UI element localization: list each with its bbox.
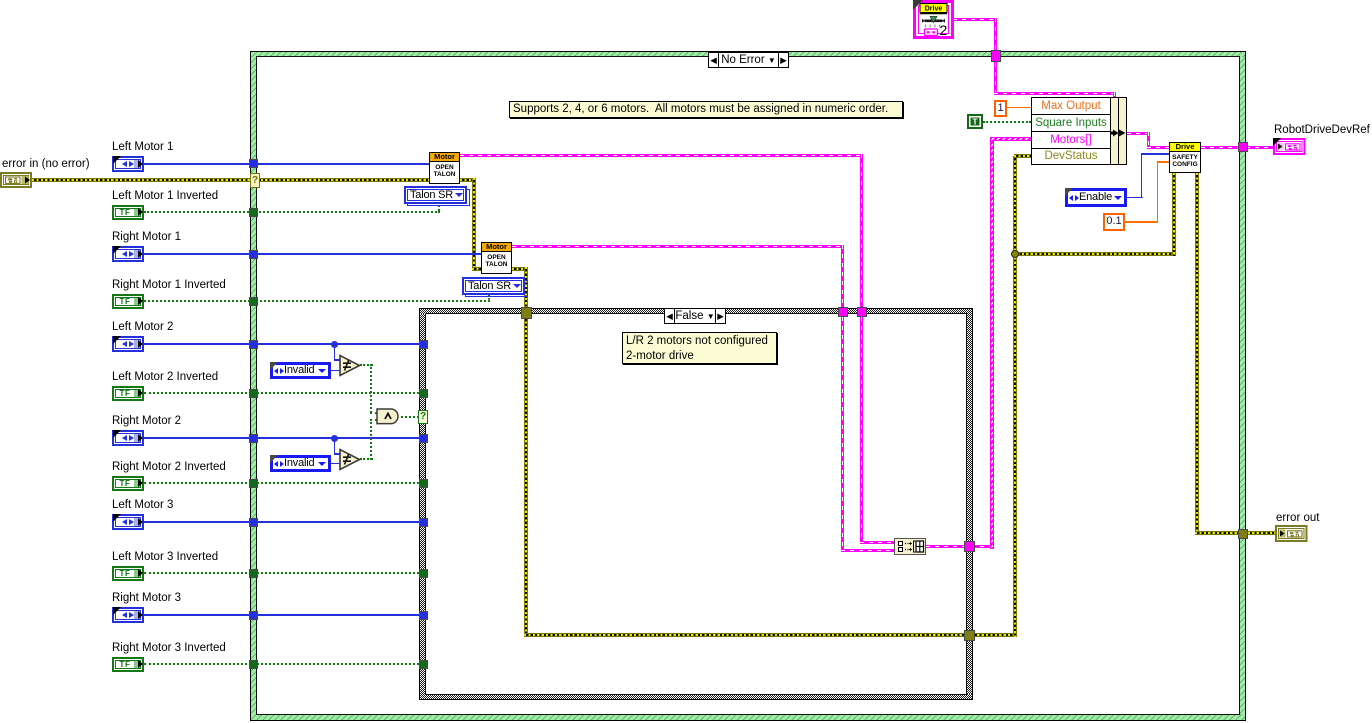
tunnel: Left Motor 2 Inverted on outer border — [249, 389, 258, 398]
node: build array — [894, 538, 926, 555]
label: Left Motor 1 — [112, 141, 173, 154]
comment: L/R 2 motors not configured — [622, 332, 777, 364]
wire: pink from Drive refnum constant into case — [953, 18, 997, 21]
refnum constant: Drive motor typedef — [913, 0, 954, 39]
label: Left Motor 2 — [112, 321, 173, 334]
tunnel: pink OPEN TALON 1 on inner top border — [857, 307, 867, 317]
wire: Left Motor 1 Inverted green dotted — [144, 211, 440, 213]
enum constant: Talon SR 1 — [407, 189, 470, 206]
tunnel: pink build array output on inner right border — [964, 541, 975, 552]
wire: pink inside inner case left to build array — [841, 317, 844, 552]
wire: Right Motor 2 blue — [144, 437, 419, 439]
label: Right Motor 1 Inverted — [112, 279, 226, 292]
label: Left Motor 3 Inverted — [112, 551, 218, 564]
tunnel: Left Motor 2 on inner border — [419, 340, 428, 349]
tunnel: error out on outer right border — [1238, 529, 1248, 539]
wire: green T constant to bundle Square Inputs — [983, 121, 1031, 123]
enum constant: Talon SR 2 — [465, 280, 528, 297]
wire: Left Motor 2 blue — [144, 343, 419, 345]
wire: pink bundle output to Drive Safety Config — [1127, 132, 1150, 135]
enum constant: Invalid 1 — [270, 362, 331, 379]
wire: pink from OPEN TALON 1 to inner case tunnel — [460, 154, 863, 157]
wire: Right Motor 3 Inverted green dotted — [144, 663, 419, 665]
comparison node: not-equal 1 — [339, 354, 362, 377]
tunnel: pink Drive refnum on outer top border — [991, 50, 1001, 62]
node: case selector label "No Error" — [708, 52, 789, 68]
control terminal: Left Motor 2 Inverted — [112, 386, 144, 401]
wire: blue Enable to Drive Safety Config — [1127, 197, 1143, 199]
constant: 1 — [994, 100, 1007, 117]
control terminal: Right Motor 1 — [112, 246, 144, 262]
control terminal: Left Motor 2 — [112, 336, 144, 352]
wire: error between OPEN TALON 1 and 2 — [460, 178, 476, 182]
wire: pink from OPEN TALON 2 to inner case tunnel — [512, 245, 844, 248]
wire: pink inside inner case right to build array — [860, 317, 863, 544]
tunnel: error into inner case top border — [521, 307, 532, 319]
svg-text:2: 2 — [940, 22, 948, 38]
case structure: inner False case border — [419, 308, 973, 700]
wire: error from Drive Safety Config down to error out — [1195, 173, 1199, 535]
tunnel: Left Motor 2 on outer border — [249, 340, 258, 349]
wire: Left Motor 3 Inverted green dotted — [144, 572, 419, 574]
wire: And output to inner case selector — [401, 416, 419, 418]
svg-text:T: T — [972, 117, 978, 127]
wire: error vertical inside inner case — [524, 317, 528, 637]
tunnel: error out of inner case right border — [964, 630, 975, 641]
constant: 0.1 — [1103, 213, 1125, 231]
enum constant: Invalid 2 — [270, 455, 331, 472]
wire: magenta array wire up to bundle Motors[] — [990, 137, 994, 549]
label: Right Motor 3 — [112, 592, 181, 605]
wire: Invalid 2 output to not-equal 2 — [331, 463, 340, 465]
node: bundle by name — [1031, 97, 1127, 165]
wire: orange 0.1 to Drive Safety Config — [1125, 221, 1158, 223]
tunnel: pink OPEN TALON 2 on inner top border — [838, 307, 848, 317]
node: outer case selector ? — [250, 173, 260, 188]
label: Right Motor 2 — [112, 415, 181, 428]
label: RobotDriveDevRef — [1274, 124, 1370, 137]
tunnel: Left Motor 3 on inner border — [419, 518, 428, 527]
label: Right Motor 2 Inverted — [112, 461, 226, 474]
constant: T boolean true — [967, 114, 983, 129]
wire: not-equal 2 output to And — [360, 458, 373, 460]
svg-text:Drive: Drive — [925, 5, 943, 12]
tunnel: Right Motor 3 on inner border — [419, 611, 428, 620]
node: case selector label "False" — [664, 308, 726, 324]
wire: Right Motor 1 blue — [144, 253, 481, 255]
wire: pink Drive Safety Config to RobotDriveDevRef — [1201, 146, 1273, 149]
wire: Right Motor 2 Inverted green dotted — [144, 482, 419, 484]
wire: Right Motor 2 branch to not-equal 2 — [334, 438, 336, 454]
label: Right Motor 3 Inverted — [112, 642, 226, 655]
control terminal: Right Motor 2 Inverted — [112, 476, 144, 491]
enum constant: Enable — [1065, 188, 1127, 207]
label: Right Motor 1 — [112, 231, 181, 244]
wire: error in horizontal to OPEN TALON 1 — [32, 178, 429, 182]
wire: Left Motor 2 Inverted green dotted — [144, 392, 419, 394]
control terminal: Right Motor 3 Inverted — [112, 657, 144, 672]
tunnel: Right Motor 3 Inverted on inner border — [419, 660, 428, 669]
tunnel: Right Motor 2 Inverted on inner border — [419, 479, 428, 488]
junction: Left Motor 2 dot — [331, 341, 338, 348]
subVI: Motor OPEN TALON 2 — [481, 242, 512, 274]
comment: supports 2 4 or 6 motors — [509, 101, 903, 118]
control terminal: Right Motor 3 — [112, 607, 144, 623]
junction: Right Motor 2 dot — [331, 435, 338, 442]
junction: error wire dot — [1011, 250, 1019, 258]
control terminal: Left Motor 3 Inverted — [112, 566, 144, 581]
tunnel: Right Motor 3 Inverted on outer border — [249, 660, 258, 669]
tunnel: Left Motor 2 Inverted on inner border — [419, 389, 428, 398]
control terminal: Left Motor 3 — [112, 514, 144, 530]
label: error in (no error) — [2, 158, 90, 171]
logic node: And — [376, 408, 403, 425]
tunnel: Right Motor 2 on inner border — [419, 434, 428, 443]
indicator terminal: RobotDriveDevRef — [1273, 138, 1306, 155]
wire: Left Motor 1 blue — [144, 163, 429, 165]
control terminal: error in cluster — [0, 172, 32, 188]
control terminal: Left Motor 1 — [112, 156, 144, 172]
case structure: outer No Error case border — [250, 51, 1246, 721]
wire: error branch to Drive Safety Config — [1013, 252, 1176, 256]
subVI: Motor OPEN TALON 1 — [429, 152, 460, 184]
tunnel: Right Motor 3 on outer border — [249, 611, 258, 620]
node: inner case selector ? — [418, 410, 428, 424]
wire: pink build array output through tunnel — [926, 545, 993, 548]
wire: Left Motor 3 blue — [144, 521, 419, 523]
indicator terminal: error out — [1275, 525, 1308, 542]
tunnel: Right Motor 1 Inverted on outer border — [249, 297, 258, 306]
wire: Left Motor 2 branch to not-equal 1 — [334, 344, 336, 360]
tunnel: Left Motor 3 on outer border — [249, 518, 258, 527]
wire: Right Motor 1 Inverted green dotted — [144, 300, 490, 302]
wire: error horizontal across inner case bottom — [524, 633, 1017, 637]
comparison node: not-equal 2 — [339, 448, 362, 471]
tunnel: Right Motor 2 on outer border — [249, 434, 258, 443]
wire: not-equal 1 output to And — [360, 364, 373, 366]
label: Left Motor 1 Inverted — [112, 190, 218, 203]
tunnel: Left Motor 3 Inverted on inner border — [419, 569, 428, 578]
tunnel: Right Motor 1 on outer border — [249, 250, 258, 259]
tunnel: Left Motor 1 Inverted on outer border — [249, 208, 258, 217]
label: Left Motor 2 Inverted — [112, 371, 218, 384]
wire: error from OPEN TALON 2 into inner case — [512, 267, 528, 271]
subVI: Drive Safety Config — [1169, 142, 1201, 173]
tunnel: pink RobotDriveDevRef on outer right border — [1238, 142, 1248, 152]
wire: orange 1 constant to bundle Max Output — [1007, 107, 1031, 109]
wire: Invalid 1 output to not-equal 1 — [331, 370, 340, 372]
wire: Right Motor 3 blue — [144, 614, 419, 616]
control terminal: Left Motor 1 Inverted — [112, 205, 144, 220]
control terminal: Right Motor 2 — [112, 430, 144, 446]
tunnel: Left Motor 1 on outer border — [249, 159, 258, 168]
tunnel: Right Motor 2 Inverted on outer border — [249, 479, 258, 488]
control terminal: Right Motor 1 Inverted — [112, 294, 144, 309]
label: Left Motor 3 — [112, 499, 173, 512]
wire: error vertical up to bundle DevStatus — [1013, 156, 1017, 637]
label: error out — [1276, 512, 1319, 525]
tunnel: Left Motor 3 Inverted on outer border — [249, 569, 258, 578]
